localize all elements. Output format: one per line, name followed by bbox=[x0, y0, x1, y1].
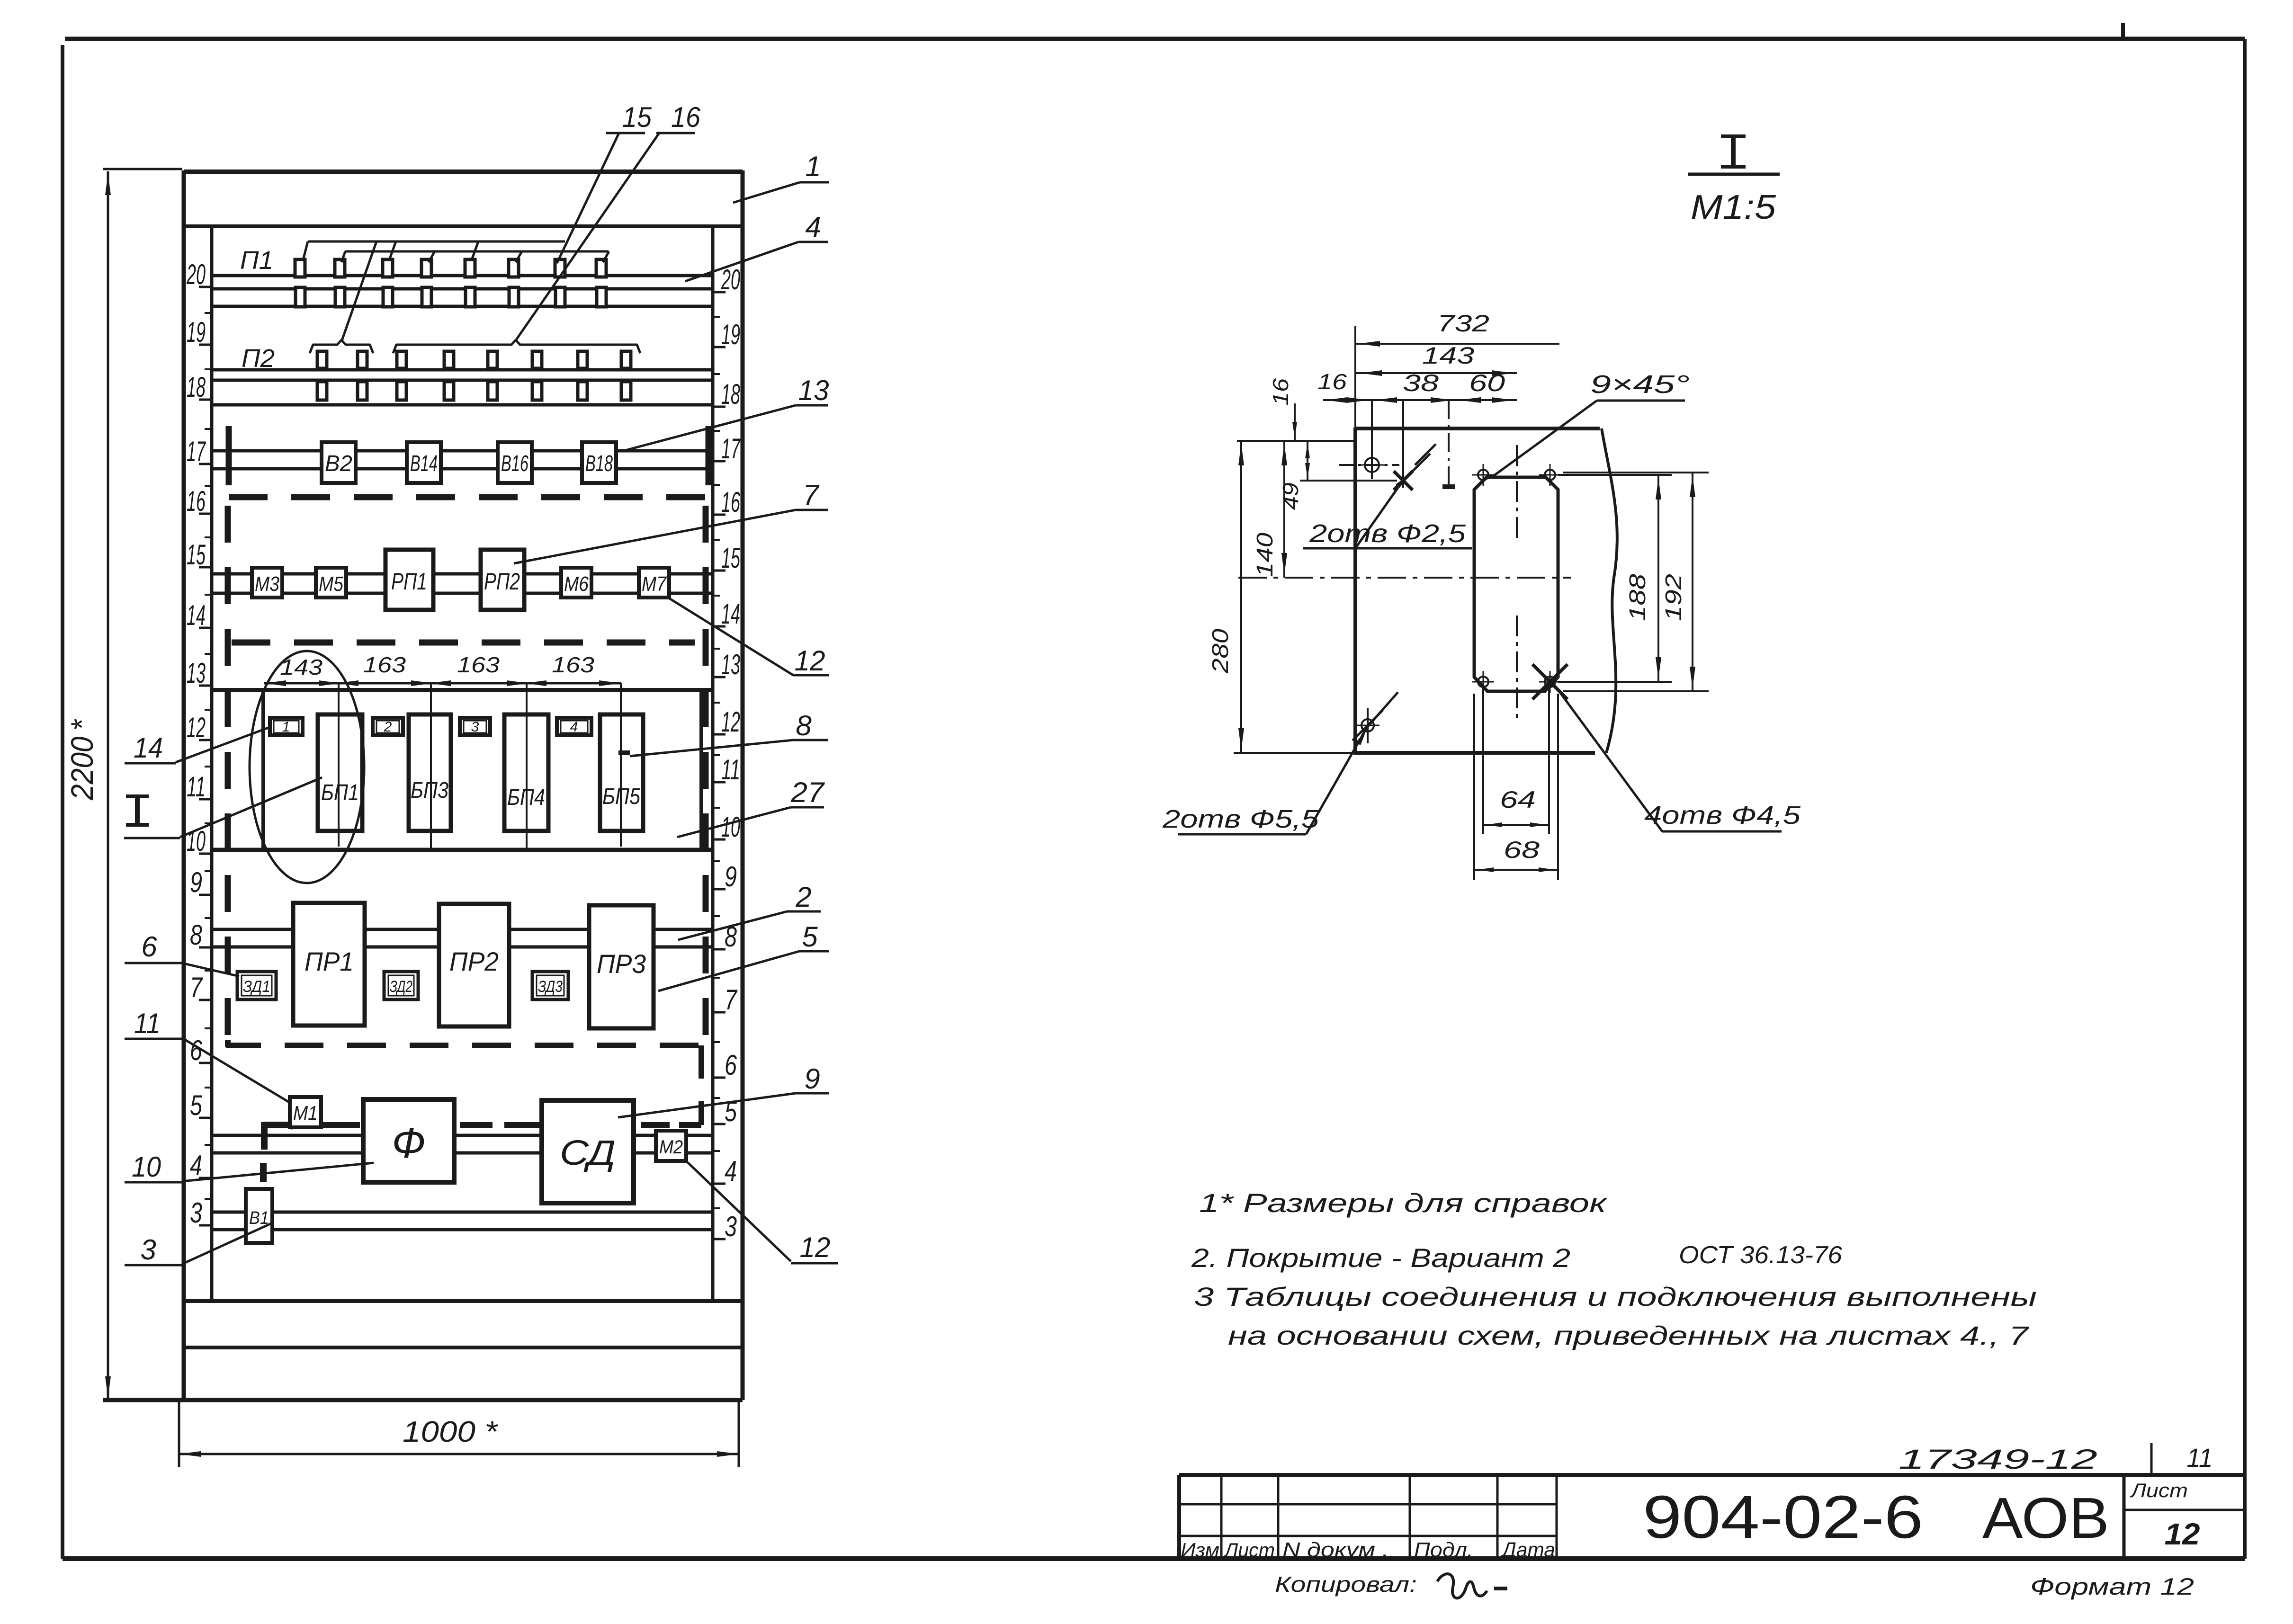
svg-text:Лист: Лист bbox=[2130, 1479, 2188, 1501]
svg-text:7: 7 bbox=[190, 972, 203, 1003]
П2 connector 6 bbox=[532, 351, 542, 400]
svg-text:М2: М2 bbox=[659, 1137, 683, 1158]
callout 13 bbox=[624, 375, 829, 451]
callout 15 bbox=[557, 101, 652, 263]
svg-text:М1: М1 bbox=[293, 1102, 318, 1124]
svg-text:27: 27 bbox=[790, 776, 825, 808]
module М1 bbox=[290, 1097, 321, 1127]
svg-text:Ф: Ф bbox=[392, 1120, 426, 1167]
svg-text:11: 11 bbox=[721, 754, 740, 785]
cutout centerline vertical bbox=[1516, 445, 1518, 720]
svg-text:2отв Ф2,5: 2отв Ф2,5 bbox=[1309, 519, 1466, 548]
plate centerline horizontal bbox=[1238, 577, 1571, 579]
device ПР1 bbox=[293, 903, 365, 1026]
svg-text:14: 14 bbox=[721, 598, 740, 630]
svg-text:В16: В16 bbox=[501, 451, 528, 476]
dashed boundary right side bbox=[703, 506, 709, 1040]
extension line БП1 bbox=[338, 683, 340, 847]
svg-text:4: 4 bbox=[805, 211, 821, 243]
module М7 bbox=[639, 568, 669, 598]
svg-text:ЗД3: ЗД3 bbox=[538, 978, 563, 996]
П1 connector 7 bbox=[555, 259, 565, 307]
switch В1 bbox=[246, 1189, 272, 1243]
hole Ф4,5 bottom-left bbox=[1472, 671, 1494, 693]
rail pair row ПР bbox=[212, 929, 713, 947]
svg-text:12: 12 bbox=[187, 712, 206, 743]
left rack scale strip bbox=[186, 226, 212, 1301]
callout 9 bbox=[618, 1063, 829, 1117]
svg-text:Формат 12: Формат 12 bbox=[2030, 1573, 2194, 1600]
svg-text:11: 11 bbox=[187, 771, 206, 803]
dimension 188 bbox=[1558, 475, 1672, 682]
П2 right brace bbox=[393, 340, 640, 353]
hole Ф5,5 bottom bbox=[1353, 708, 1383, 743]
svg-text:16: 16 bbox=[187, 485, 206, 517]
svg-text:ПР3: ПР3 bbox=[597, 949, 646, 979]
svg-text:140: 140 bbox=[1253, 533, 1278, 577]
svg-text:16: 16 bbox=[671, 101, 701, 133]
П1 connector 8 bbox=[596, 259, 606, 307]
dashed boundary top bbox=[229, 494, 719, 500]
filter block Ф bbox=[363, 1099, 454, 1182]
svg-text:11: 11 bbox=[2187, 1443, 2213, 1472]
callout 11 bbox=[125, 1008, 291, 1103]
svg-text:163: 163 bbox=[457, 652, 500, 677]
callout 8 bbox=[618, 710, 828, 756]
П1 connector 4 bbox=[421, 259, 431, 307]
svg-text:ЗД2: ЗД2 bbox=[390, 978, 412, 996]
svg-text:ПР2: ПР2 bbox=[449, 946, 499, 976]
svg-text:17: 17 bbox=[187, 436, 206, 467]
svg-text:В2: В2 bbox=[325, 451, 352, 476]
power unit БП4 bbox=[504, 714, 548, 831]
svg-text:М3: М3 bbox=[255, 572, 279, 596]
rail pair row П2 bbox=[212, 370, 713, 405]
right rack scale strip bbox=[713, 226, 743, 1301]
dashed boundary left side bbox=[225, 506, 231, 1040]
module М5 bbox=[316, 568, 346, 598]
svg-text:М7: М7 bbox=[642, 572, 667, 596]
svg-text:БП3: БП3 bbox=[411, 778, 448, 803]
svg-text:64: 64 bbox=[1500, 786, 1536, 813]
svg-text:М6: М6 bbox=[564, 572, 589, 596]
page number 11 bbox=[2151, 1443, 2213, 1475]
svg-text:280: 280 bbox=[1208, 629, 1233, 674]
svg-text:6: 6 bbox=[725, 1049, 737, 1081]
title block frame bbox=[1179, 1475, 2245, 1559]
svg-text:16: 16 bbox=[721, 486, 740, 518]
svg-text:60: 60 bbox=[1469, 370, 1505, 396]
hole Ф2,5 second point bbox=[1442, 400, 1455, 490]
svg-text:14: 14 bbox=[187, 599, 206, 631]
П2 connector 4 bbox=[444, 351, 454, 400]
П1 harness wire A bbox=[303, 241, 565, 260]
section mark I bbox=[126, 796, 149, 825]
dimension 2200* bbox=[64, 169, 182, 1399]
svg-text:16: 16 bbox=[1268, 378, 1293, 406]
side bar right of В row bbox=[706, 426, 712, 485]
svg-text:7: 7 bbox=[803, 479, 820, 511]
П1 harness wire B bbox=[341, 251, 609, 262]
svg-text:П2: П2 bbox=[242, 344, 275, 373]
callout 4 bbox=[685, 211, 828, 281]
формат note bbox=[2030, 1573, 2194, 1600]
note 9x45 bbox=[1490, 370, 1690, 478]
svg-text:М5: М5 bbox=[319, 572, 343, 596]
callout 5 bbox=[658, 921, 829, 991]
hole Ф4,5 top-right bbox=[1539, 464, 1561, 486]
svg-text:5: 5 bbox=[190, 1089, 202, 1121]
cabinet 1 outline bbox=[184, 170, 743, 1400]
callout 14 bbox=[125, 727, 271, 764]
svg-text:15: 15 bbox=[187, 539, 206, 571]
svg-text:5: 5 bbox=[802, 921, 818, 953]
svg-text:N докум .: N докум . bbox=[1282, 1538, 1389, 1562]
cabinet bottom bands bbox=[103, 1301, 743, 1400]
П1 connector 6 bbox=[509, 259, 519, 307]
svg-text:13: 13 bbox=[187, 657, 206, 689]
svg-text:11: 11 bbox=[134, 1008, 161, 1039]
svg-text:БП4: БП4 bbox=[507, 785, 545, 810]
callout 10 bbox=[125, 1151, 374, 1183]
П2 connector 5 bbox=[488, 351, 497, 400]
svg-text:Лист: Лист bbox=[1223, 1539, 1275, 1561]
note line 2 bbox=[1191, 1241, 1842, 1273]
svg-text:3: 3 bbox=[471, 719, 479, 735]
П2 left brace bbox=[310, 340, 373, 353]
svg-text:18: 18 bbox=[721, 378, 740, 410]
block СД bbox=[542, 1100, 634, 1203]
svg-text:Подл.: Подл. bbox=[1414, 1538, 1473, 1562]
svg-text:9×45°: 9×45° bbox=[1590, 370, 1690, 399]
svg-text:1* Размеры для справок: 1* Размеры для справок bbox=[1199, 1188, 1608, 1218]
svg-text:188: 188 bbox=[1625, 574, 1650, 621]
svg-text:6: 6 bbox=[141, 931, 157, 963]
connector cutout bbox=[1474, 477, 1558, 691]
dashed boundary mid bbox=[232, 640, 695, 646]
dimension 192 bbox=[1563, 473, 1709, 691]
svg-text:49: 49 bbox=[1278, 482, 1303, 510]
unit ЗД2 bbox=[384, 972, 418, 999]
dimension 143 detail bbox=[1355, 342, 1517, 376]
hole Ф4,5 bottom-right bbox=[1532, 664, 1567, 699]
switch В2 bbox=[322, 442, 356, 483]
dimension 16 vertical bbox=[1268, 378, 1297, 440]
side bar left of В row bbox=[226, 426, 232, 485]
svg-text:2: 2 bbox=[384, 719, 392, 735]
svg-text:14: 14 bbox=[134, 732, 163, 764]
note 2отв Ф5,5 bbox=[1162, 692, 1398, 834]
dashed boundary bottom bbox=[228, 1040, 705, 1045]
power unit БП5 bbox=[600, 714, 643, 831]
svg-text:3 Таблицы соединения и подк: 3 Таблицы соединения и подключения выпол… bbox=[1194, 1282, 2037, 1312]
svg-text:38: 38 bbox=[1403, 370, 1439, 396]
relay block РП2 bbox=[481, 550, 524, 610]
relay block РП1 bbox=[385, 550, 433, 610]
svg-text:СД: СД bbox=[560, 1133, 616, 1172]
svg-text:М1:5: М1:5 bbox=[1691, 188, 1776, 226]
title block header labels bbox=[1181, 1538, 1555, 1562]
note line 1 bbox=[1199, 1188, 1608, 1218]
note line 4 bbox=[1228, 1321, 2029, 1350]
rail pair row М-РП bbox=[212, 574, 713, 593]
dimension 280 bbox=[1208, 441, 1353, 753]
plate label 1 bbox=[270, 718, 303, 735]
callout 16 bbox=[516, 101, 701, 340]
svg-text:12: 12 bbox=[2165, 1517, 2200, 1551]
svg-text:10: 10 bbox=[132, 1151, 161, 1183]
svg-text:12: 12 bbox=[800, 1231, 831, 1263]
svg-text:68: 68 bbox=[1504, 837, 1540, 863]
hole Ф4,5 top-left bbox=[1472, 464, 1494, 486]
unit ЗД1 bbox=[237, 972, 276, 999]
svg-text:13: 13 bbox=[721, 649, 740, 680]
dimension 64 bbox=[1483, 687, 1549, 834]
svg-text:163: 163 bbox=[363, 652, 406, 677]
switch В14 bbox=[407, 442, 441, 483]
dimension 68 bbox=[1474, 694, 1558, 880]
wire to П2 left brace bbox=[342, 241, 376, 340]
extension line top left bbox=[1237, 440, 1353, 442]
dimension 732 bbox=[1355, 310, 1559, 347]
note 2отв Ф2,5 bbox=[1303, 488, 1472, 548]
П2 connector 3 bbox=[397, 351, 406, 400]
svg-text:БП5: БП5 bbox=[602, 784, 640, 809]
svg-text:10: 10 bbox=[721, 811, 740, 843]
unit ЗД3 bbox=[532, 972, 568, 999]
svg-text:ЗД1: ЗД1 bbox=[243, 978, 270, 996]
svg-text:15: 15 bbox=[721, 542, 740, 574]
device ПР2 bbox=[439, 904, 509, 1026]
svg-text:12: 12 bbox=[721, 706, 740, 738]
dashed wire row Ф-СД bbox=[322, 1045, 701, 1125]
wire at М1 bbox=[263, 1122, 307, 1182]
svg-text:8: 8 bbox=[190, 919, 202, 951]
svg-text:2: 2 bbox=[795, 881, 811, 913]
dimension 1000* bbox=[179, 1401, 739, 1467]
svg-text:732: 732 bbox=[1437, 310, 1489, 337]
svg-text:163: 163 bbox=[552, 652, 594, 677]
svg-text:4: 4 bbox=[725, 1155, 737, 1187]
svg-text:2200 *: 2200 * bbox=[64, 719, 99, 801]
svg-text:9: 9 bbox=[725, 861, 737, 892]
frame panel top line bbox=[212, 688, 713, 692]
svg-text:ОСТ 36.13-76: ОСТ 36.13-76 bbox=[1679, 1241, 1842, 1269]
svg-text:3: 3 bbox=[725, 1211, 737, 1242]
svg-text:В14: В14 bbox=[410, 451, 438, 476]
rail pair row В1 bbox=[212, 1212, 713, 1230]
svg-text:3: 3 bbox=[140, 1234, 156, 1266]
dimension 49 bbox=[1278, 441, 1397, 510]
module М3 bbox=[252, 568, 282, 598]
svg-text:ПР1: ПР1 bbox=[305, 946, 354, 976]
svg-text:3: 3 bbox=[190, 1197, 202, 1229]
svg-text:18: 18 bbox=[187, 371, 206, 403]
svg-text:9: 9 bbox=[804, 1063, 820, 1095]
svg-text:Изм: Изм bbox=[1181, 1539, 1219, 1561]
svg-text:13: 13 bbox=[798, 375, 829, 406]
switch В16 bbox=[498, 442, 532, 483]
leader into ellipse bbox=[124, 777, 322, 838]
connector group П2 label bbox=[242, 344, 275, 373]
callout 6 bbox=[125, 931, 239, 976]
callout 12 to М7 bbox=[669, 598, 829, 677]
svg-text:8: 8 bbox=[796, 710, 812, 741]
callout 3 bbox=[125, 1222, 273, 1266]
note 4отв Ф4,5 bbox=[1556, 687, 1801, 831]
svg-text:1: 1 bbox=[805, 151, 821, 182]
extension line БП4 bbox=[526, 683, 528, 850]
svg-text:9: 9 bbox=[190, 866, 202, 898]
rail pair row П1 bbox=[212, 276, 713, 306]
extension line БП5 bbox=[620, 683, 622, 847]
svg-text:на основании схем, приведен: на основании схем, приведенных на листах… bbox=[1228, 1321, 2029, 1350]
frame 27 sides bbox=[263, 690, 701, 850]
копировал note bbox=[1275, 1572, 1507, 1598]
П2 connector 7 bbox=[578, 351, 587, 400]
svg-text:П1: П1 bbox=[240, 246, 273, 275]
power unit БП1 bbox=[318, 714, 362, 831]
ellipse mark around БП1 bay bbox=[250, 651, 364, 883]
П1 connector 2 bbox=[335, 259, 345, 307]
svg-text:17: 17 bbox=[721, 433, 741, 464]
module М6 bbox=[561, 568, 591, 598]
chain dimension 143-163-163-163 bbox=[264, 652, 621, 686]
svg-text:20: 20 bbox=[186, 259, 206, 290]
svg-text:7: 7 bbox=[725, 984, 738, 1016]
dimension chain 16-38-60 bbox=[1317, 369, 1517, 403]
svg-text:192: 192 bbox=[1661, 574, 1686, 621]
svg-text:1: 1 bbox=[282, 719, 290, 735]
П2 connector 2 bbox=[358, 351, 367, 400]
П2 connector 8 bbox=[621, 351, 631, 400]
П1 connector 3 bbox=[383, 259, 393, 307]
callout 7 bbox=[514, 479, 828, 563]
dimension 140 bbox=[1253, 441, 1287, 578]
svg-text:4: 4 bbox=[190, 1150, 202, 1181]
svg-text:15: 15 bbox=[622, 101, 652, 133]
callout 12 to М2 bbox=[688, 1162, 838, 1263]
connector group П1 label bbox=[240, 246, 273, 275]
svg-text:РП2: РП2 bbox=[484, 568, 520, 595]
callout 1 bbox=[733, 151, 829, 203]
device ПР3 bbox=[589, 905, 654, 1028]
П1 connector 1 bbox=[295, 259, 305, 307]
svg-text:2отв Ф5,5: 2отв Ф5,5 bbox=[1162, 805, 1319, 833]
document number 904-02-6 АОВ bbox=[1643, 1483, 2109, 1551]
svg-text:4отв Ф4,5: 4отв Ф4,5 bbox=[1644, 801, 1801, 830]
frame bottom line bbox=[212, 848, 713, 852]
switch В18 bbox=[582, 442, 616, 483]
plate label 2 bbox=[373, 718, 403, 735]
svg-text:1000 *: 1000 * bbox=[403, 1416, 498, 1448]
svg-text:В18: В18 bbox=[585, 451, 613, 476]
power unit БП3 bbox=[409, 714, 451, 831]
svg-text:904-02-6: 904-02-6 bbox=[1643, 1483, 1923, 1551]
hole Ф2,5 marked point bbox=[1394, 400, 1436, 490]
detail plate outline bbox=[1353, 326, 1617, 753]
detail view title I М1:5 bbox=[1688, 136, 1780, 226]
svg-text:БП1: БП1 bbox=[321, 780, 359, 805]
svg-text:143: 143 bbox=[1422, 342, 1474, 369]
svg-text:17349-12: 17349-12 bbox=[1899, 1444, 2097, 1475]
svg-text:12: 12 bbox=[795, 645, 825, 677]
callout 2 bbox=[678, 881, 821, 940]
svg-text:19: 19 bbox=[187, 316, 206, 348]
svg-text:РП1: РП1 bbox=[391, 568, 427, 595]
module М2 bbox=[656, 1131, 686, 1161]
extension line БП3 bbox=[430, 683, 432, 848]
svg-text:4: 4 bbox=[570, 719, 578, 735]
svg-text:2. Покрытие - Вариант 2: 2. Покрытие - Вариант 2 bbox=[1191, 1243, 1570, 1273]
rail pair row Ф-СД bbox=[212, 1135, 713, 1153]
П1 connector 5 bbox=[465, 259, 475, 307]
rail pair row В bbox=[212, 451, 713, 469]
svg-text:Копировал:: Копировал: bbox=[1275, 1572, 1417, 1597]
callout 27 bbox=[677, 776, 825, 837]
inventory number 17349-12 bbox=[1899, 1444, 2097, 1475]
plate label 4 bbox=[557, 718, 591, 735]
svg-text:Дата: Дата bbox=[1500, 1538, 1555, 1562]
svg-text:19: 19 bbox=[721, 319, 740, 350]
П2 connector 1 bbox=[317, 351, 327, 400]
plate label 3 bbox=[460, 718, 490, 735]
svg-text:16: 16 bbox=[1317, 369, 1347, 394]
sheet cell Лист 12 bbox=[2124, 1475, 2245, 1559]
hole Ф5,5 top bbox=[1339, 400, 1399, 479]
note line 3 bbox=[1194, 1282, 2037, 1312]
svg-text:АОВ: АОВ bbox=[1982, 1486, 2109, 1550]
